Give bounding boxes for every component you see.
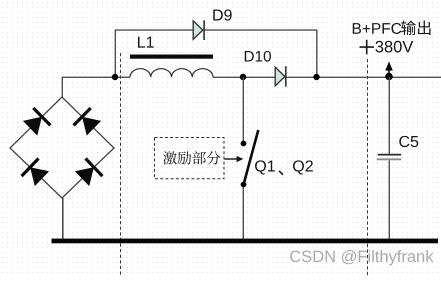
drive block dashed box	[155, 138, 225, 179]
wire D9 cathode to corner and down to output node	[204, 30, 317, 77]
wire B+ rail down to C5	[388, 77, 390, 154]
label C5	[399, 136, 418, 147]
label B+PFC输出	[353, 20, 431, 35]
wire switch to ground bus	[242, 187, 244, 239]
B+ output arrow (up)	[385, 62, 393, 76]
inductor L1 winding	[130, 69, 213, 77]
section boundary dashed line (left)	[120, 53, 122, 276]
bridge rectifier diamond wires	[10, 97, 114, 198]
section boundary dashed line (right)	[367, 59, 369, 276]
node junction dot (L1 / D10 / switch)	[240, 74, 246, 80]
bridge diode (left-top)	[23, 108, 51, 136]
inductor L1 core bar	[130, 55, 213, 59]
capacitor C5	[377, 154, 402, 160]
arrow drive block to switch	[225, 156, 244, 162]
node dot B+ output tap	[385, 73, 393, 81]
label 激励部分	[163, 151, 220, 164]
bridge diode (right-top)	[74, 108, 102, 136]
wire D10 cathode to B+ output rail (off right edge)	[286, 76, 441, 78]
wire D10 node to D10 anode	[243, 76, 275, 78]
label +380V	[360, 40, 414, 55]
bridge diode (bottom-right)	[75, 159, 103, 187]
node junction dot (D9 + D10 cathodes)	[313, 74, 319, 80]
wire bridge top to node	[62, 77, 115, 97]
wire node to L1	[115, 76, 130, 78]
node junction dot (bridge output / L1 / D9 branch)	[112, 74, 118, 80]
label Q1、Q2	[255, 160, 313, 175]
wire C5 to ground bus	[388, 161, 390, 240]
label L1	[138, 37, 154, 48]
wire L1 to D10 node	[213, 76, 243, 78]
label D10	[245, 51, 271, 62]
switch Q1/Q2 contacts and blade	[241, 130, 259, 187]
bridge diode (bottom-left)	[22, 159, 49, 187]
label D9	[213, 9, 231, 20]
ground bus bar	[52, 239, 439, 244]
diode D9	[193, 20, 204, 40]
wire node down to switch	[242, 77, 244, 141]
watermark CSDN @Filthyfrank	[290, 250, 433, 265]
wire bridge bottom to ground bus	[62, 198, 64, 239]
wire node up and across to D9 anode	[115, 30, 193, 77]
diode D10	[275, 66, 286, 87]
